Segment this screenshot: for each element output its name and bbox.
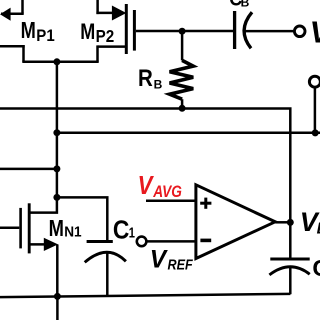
wire vertical bus (56, 62, 59, 198)
label VAVG (red) (138, 170, 182, 201)
svg-text:REF: REF (168, 257, 194, 274)
svg-text:P2: P2 (96, 26, 115, 46)
node bus-C1 tap (53, 194, 60, 201)
wire MP1/MP2 drains (22, 61, 98, 64)
svg-text:B: B (241, 0, 250, 10)
node source-rail (54, 293, 61, 300)
label VB (300, 207, 320, 238)
label C1 (113, 214, 135, 244)
wire source stub below (56, 296, 59, 320)
svg-text:C: C (113, 214, 130, 244)
node bus-left tap (53, 165, 60, 172)
op-amp minus (200, 239, 211, 243)
wire op-amp output (275, 221, 290, 224)
ground rail bottom (0, 294, 290, 297)
node bus-VB (53, 129, 60, 136)
node drain junction (53, 58, 60, 65)
svg-text:V: V (150, 246, 169, 274)
capacitor C1 (85, 242, 126, 296)
svg-text:R: R (138, 65, 153, 92)
node RB top (179, 28, 186, 35)
capacitor C2 (269, 259, 309, 294)
wire to C1 top (57, 197, 107, 240)
svg-text:B: B (317, 220, 320, 237)
svg-text:1: 1 (129, 226, 135, 242)
svg-text:V: V (138, 170, 155, 200)
capacitor CB (235, 11, 294, 49)
label RB (138, 65, 163, 92)
svg-text:M: M (80, 19, 95, 44)
op-amp plus (200, 198, 211, 209)
transistor MP2 (96, 0, 134, 62)
label MP1 (21, 17, 55, 45)
terminal circle top right (294, 26, 305, 37)
wire VB node horizontal (57, 131, 320, 134)
terminal circle right (314, 88, 317, 133)
wire left tap (0, 168, 57, 171)
svg-text:B: B (154, 77, 163, 91)
wire VAVG stub (146, 199, 196, 202)
svg-text:P1: P1 (36, 26, 54, 45)
node output (287, 219, 294, 226)
label VREF (150, 246, 194, 274)
svg-text:N1: N1 (64, 225, 81, 241)
label CB (cut at top) (229, 0, 249, 11)
wire VREF stub (148, 240, 196, 243)
resistor RB (170, 31, 194, 108)
transistor MP1 (partially cut at left edge) (0, 0, 25, 62)
svg-text:AVG: AVG (152, 183, 182, 201)
label MP2 (80, 19, 114, 46)
node RB bottom (179, 105, 186, 112)
terminal circle VREF (137, 237, 147, 247)
transistor MN1 (0, 195, 58, 297)
node stem-VB (312, 129, 319, 136)
wire MP2 gate to CB (136, 30, 234, 33)
rail mid (to right corner down) (0, 109, 290, 258)
label V (cut at right) (310, 15, 320, 50)
svg-text:M: M (49, 215, 64, 241)
op-amp U1 (196, 185, 275, 259)
svg-text:V: V (310, 15, 320, 50)
label MN1 (49, 215, 82, 241)
svg-text:M: M (21, 17, 36, 43)
label C2 (cut at right) (312, 255, 320, 281)
svg-text:C: C (312, 255, 320, 281)
